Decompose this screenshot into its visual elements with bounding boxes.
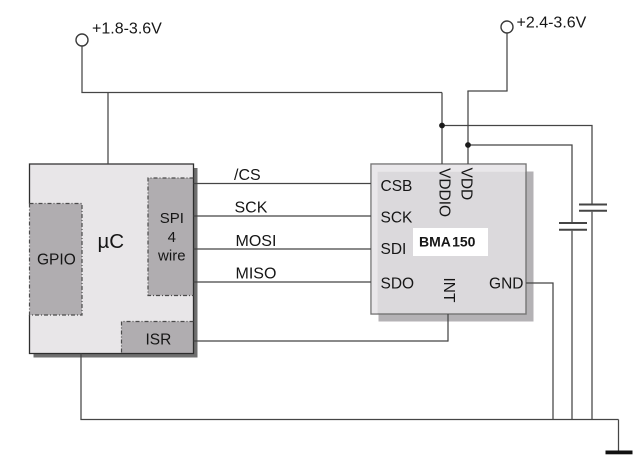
junction node A <box>439 123 445 129</box>
SPI 4 wire block dashed border <box>148 178 194 296</box>
wire uC ground drop <box>80 354 82 420</box>
SPI label <box>157 210 186 265</box>
ISR block dashed border <box>122 322 194 354</box>
accelerometer U2 body <box>371 164 526 314</box>
wire /CS <box>194 183 372 185</box>
BMA150 name plate <box>413 228 488 256</box>
wire C1 bottom <box>591 212 593 420</box>
accelerometer U2 shadow <box>379 172 534 322</box>
svg-text:SDO: SDO <box>381 275 415 292</box>
svg-text:/CS: /CS <box>234 167 261 184</box>
wire ground stem <box>618 420 620 452</box>
wire ISR to INT horizontal <box>194 340 449 342</box>
wire GND pin <box>526 283 553 420</box>
wire C2 bottom <box>571 231 573 420</box>
wire SCK <box>194 215 372 217</box>
svg-text:SPI: SPI <box>160 210 184 227</box>
svg-text:µC: µC <box>98 230 125 253</box>
svg-text:ISR: ISR <box>146 332 172 349</box>
svg-text:SDI: SDI <box>381 241 407 258</box>
svg-text:4: 4 <box>168 229 176 246</box>
wire MOSI <box>194 248 372 250</box>
wire terminal1 drop <box>81 47 83 93</box>
microcontroller U1 body <box>30 164 194 354</box>
svg-text:SCK: SCK <box>381 210 414 227</box>
svg-text:MISO: MISO <box>236 266 277 283</box>
svg-text:VDD: VDD <box>458 168 475 201</box>
wire 1.8V rail <box>81 92 442 94</box>
ground symbol <box>606 451 633 455</box>
GPIO block dashed border <box>30 204 83 316</box>
microcontroller U1 shadow <box>34 168 198 358</box>
svg-text:GPIO: GPIO <box>37 252 76 269</box>
wire rail down to VDDIO <box>441 93 443 165</box>
wire node A to C1 <box>442 126 592 204</box>
svg-text:wire: wire <box>157 248 186 265</box>
svg-text:BMA150: BMA150 <box>419 234 476 250</box>
wire terminal2 horizontal <box>467 90 507 92</box>
junction node B <box>465 142 471 148</box>
capacitor C2 <box>559 223 587 230</box>
microcontroller U1 border <box>30 164 194 354</box>
supply terminal +1.8-3.6V <box>76 34 88 46</box>
wire down to VDD <box>467 91 469 164</box>
svg-text:+1.8-3.6V: +1.8-3.6V <box>92 21 162 38</box>
capacitor C1 <box>579 205 607 211</box>
wire node B to C2 <box>468 145 572 222</box>
supply terminal +2.4-3.6V <box>501 21 513 33</box>
svg-text:VDDIO: VDDIO <box>436 168 453 217</box>
wire rail to uC top <box>107 93 109 165</box>
wire terminal2 drop <box>506 34 508 92</box>
svg-text:INT: INT <box>440 278 457 304</box>
svg-text:+2.4-3.6V: +2.4-3.6V <box>517 15 587 32</box>
accelerometer U2 inner highlight band <box>372 165 526 314</box>
svg-text:SCK: SCK <box>235 200 268 217</box>
svg-text:CSB: CSB <box>381 178 413 195</box>
wire ground rail <box>80 419 618 421</box>
wire MISO <box>194 281 372 283</box>
SPI block fill <box>148 178 194 296</box>
GPIO block fill <box>30 204 83 316</box>
wire INT riser <box>447 314 449 342</box>
svg-text:GND: GND <box>489 275 523 292</box>
ISR block fill <box>122 322 194 354</box>
svg-text:MOSI: MOSI <box>236 233 277 250</box>
